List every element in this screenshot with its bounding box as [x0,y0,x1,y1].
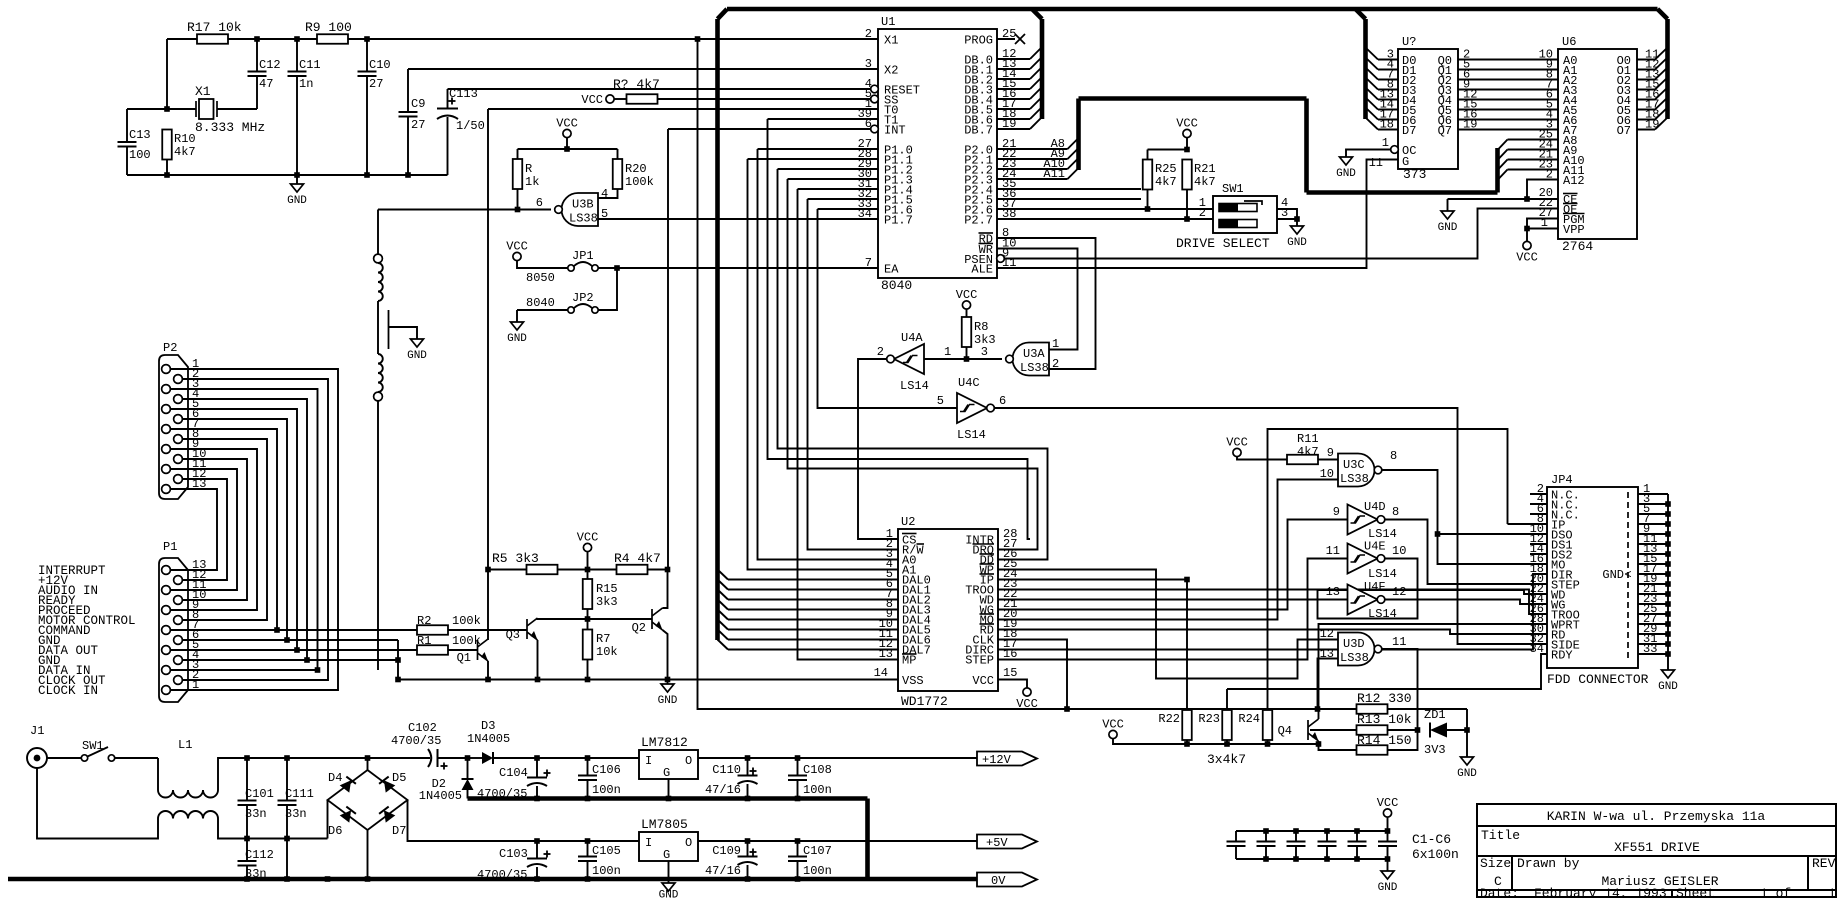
ground shield [411,339,424,347]
wire C6 bottom [1387,846,1389,859]
wire [1227,654,1547,689]
capacitor C2 [1257,842,1276,847]
svg-text:1n: 1n [299,77,313,91]
junction [585,567,591,573]
svg-text:U4E: U4E [1364,540,1386,554]
wire riser [397,640,399,680]
wire JP2 to EA node [598,268,617,310]
junction [1184,741,1190,747]
svg-text:GND: GND [659,890,679,898]
svg-text:X2: X2 [884,64,898,78]
wire P2.11 to P1.11 [170,469,237,590]
wire [378,209,551,211]
wire [698,39,1068,709]
svg-text:VCC: VCC [506,240,528,254]
wire [998,680,1027,689]
svg-text:Q3: Q3 [506,628,520,642]
svg-text:4: 4 [601,187,608,201]
svg-text:JP4: JP4 [1551,473,1573,487]
capacitor C101 [238,801,257,806]
resistor R13 [1357,725,1388,735]
wire to crystal [167,108,196,110]
resistor R10 [162,130,172,160]
wire C13 top [126,109,128,142]
bus O vertical at U6 [1665,19,1670,119]
svg-text:GND: GND [1658,681,1678,693]
wire [170,629,418,631]
svg-text:LS14: LS14 [900,379,929,393]
wire D2 [1378,79,1398,81]
wire [998,640,1067,710]
wire [1382,649,1418,730]
junction [325,876,331,882]
wire LM7805 ground [668,861,670,879]
wire DAL7 [728,649,898,651]
wire [788,179,1038,550]
svg-text:GND: GND [507,333,527,345]
wire [1318,559,1548,619]
bus A vertical mid [1304,99,1309,193]
svg-text:VCC: VCC [1102,718,1124,732]
wire C5 top [1356,831,1358,842]
junction [1316,741,1322,747]
bus stub DAL7 [718,640,729,650]
bus stub DB.7 [1030,117,1042,129]
svg-text:GND: GND [1457,768,1477,780]
svg-text:C103: C103 [499,847,528,861]
junction [405,172,411,178]
svg-text:VCC: VCC [556,117,578,131]
inverter U4D LS14 [1348,505,1378,535]
wire gnd stub [1387,859,1389,871]
svg-text:R20: R20 [625,162,647,176]
wire pin 13 [1638,553,1668,555]
wire O0 [1637,59,1655,61]
wire P2.5 to P1.5 [170,409,297,650]
wire C2 bottom [1265,846,1267,859]
junction [745,876,751,882]
bus wire [468,796,868,801]
wire C13 bottom [126,147,128,176]
wire R24 bottom [1267,740,1269,744]
svg-text:11: 11 [1392,635,1406,649]
wire DAL1 [728,589,898,591]
junction [695,36,701,42]
svg-text:Sheet: Sheet [1676,886,1715,898]
bus ground drop [865,799,870,880]
wire C1-C6 bottom rail [1236,858,1388,860]
junction [1464,727,1470,733]
wire [1458,119,1558,121]
bus stub A10 [1068,158,1079,169]
wire JP2 gnd stub [516,310,518,322]
capacitor C112 [238,861,257,866]
bus stub DB.0 [1030,47,1042,59]
resistor R4 [617,565,648,575]
junction [1665,521,1671,527]
svg-text:R11: R11 [1297,432,1319,446]
wire D3 [1378,89,1398,91]
connector P1 [159,558,188,702]
wire C10 bottom [366,76,368,175]
svg-text:L1: L1 [178,738,192,752]
svg-text:100k: 100k [452,634,481,648]
bus stub [1498,140,1508,151]
VCC for C1-C6 [1383,809,1391,817]
ground SW1 [1291,226,1304,234]
wire [377,210,379,255]
wire between coils [377,301,379,354]
junction [1184,577,1190,583]
wire D4 [1378,99,1398,101]
bus A horizontal top [1079,96,1307,101]
junction [666,796,672,802]
junction [795,876,801,882]
svg-text:RDY: RDY [1551,649,1573,663]
svg-text:U2: U2 [901,515,915,529]
capacitor C13 [118,142,137,147]
wire pin 29 [1638,633,1668,635]
svg-text:Drawn by: Drawn by [1517,856,1580,871]
junction [1665,561,1671,567]
capacitor C5 [1348,842,1367,847]
op-amp U1 8040 microcontroller box [878,29,997,278]
svg-text:R8: R8 [974,320,988,334]
gate U3A LS38 [1013,343,1049,376]
wire C6 top [1387,831,1389,842]
overline RD [979,232,994,234]
wire P2.10 to P1.10 [182,459,247,600]
bus bevel left [718,9,728,19]
wire [1319,624,1548,719]
wire VCC to JP1 [517,260,568,268]
wire [788,178,879,180]
wire C110 top [747,758,749,776]
wire [1527,180,1558,200]
wire DB.7 [997,128,1030,130]
wire P2.0 A8 [997,148,1068,150]
capacitor C107 [788,857,807,862]
wire P2.6 to P1.6 [182,419,287,640]
svg-text:8: 8 [1392,505,1399,519]
svg-text:D4: D4 [328,771,342,785]
svg-text:1k: 1k [525,175,539,189]
wire R 1k top [517,149,519,159]
wire crystal to C12 [217,108,257,110]
svg-text:C107: C107 [803,844,832,858]
wire pin 7 [1638,523,1668,525]
svg-text:G: G [663,766,670,780]
wire [247,757,430,759]
svg-text:R2: R2 [417,614,431,628]
wire C106 bottom [587,780,589,799]
wire R12 to ZD1 node [1387,708,1467,710]
wire C103 top [536,841,538,859]
bus stub [1498,160,1508,171]
wire D2 bottom [467,790,469,799]
junction [254,36,260,42]
wire [617,267,878,269]
svg-text:ZD1: ZD1 [1424,708,1446,722]
wire C106 top [587,758,589,776]
wire ZD1 right [1447,729,1467,731]
regulator LM7812 [639,750,698,779]
svg-text:LS38: LS38 [1340,472,1369,486]
wire C107 bottom [797,861,799,879]
junction [1293,856,1299,862]
wire [448,629,528,631]
junction [585,796,591,802]
wire C1-C6 top rail [1236,830,1388,832]
bus stub D4 [1366,88,1379,100]
junction [745,796,751,802]
junction [1354,856,1360,862]
bus stub DAL2 [718,590,729,600]
svg-text:R9 100: R9 100 [305,20,352,35]
VCC for R/R20 [563,129,571,137]
wire C11 top [296,39,298,72]
svg-text:G: G [1402,155,1409,169]
wire CE gnd stub [1447,199,1449,211]
bus stub O1 [1655,58,1668,70]
wire RESET to U1 [448,88,872,90]
svg-text:VCC: VCC [956,288,978,302]
wire C1 top [1235,831,1237,842]
wire [1458,79,1558,81]
resistor R8 [962,317,972,347]
svg-text:MP: MP [902,654,916,668]
wire R20 to U3B pin4 [598,189,618,198]
svg-text:U1: U1 [881,15,895,29]
svg-text:C106: C106 [592,763,621,777]
bus stub O0 [1655,48,1668,60]
wire [1458,59,1558,61]
svg-text:GND: GND [1378,882,1398,894]
svg-text:6: 6 [536,196,543,210]
svg-text:R13 10k: R13 10k [1357,712,1412,727]
svg-text:10: 10 [1392,544,1406,558]
svg-text:JP2: JP2 [572,291,594,305]
svg-text:R17 10k: R17 10k [187,20,242,35]
wire C111 top [286,758,288,801]
svg-text:EA: EA [884,263,899,277]
wire C109 bottom [747,865,749,879]
junction [1064,706,1070,712]
junction [1315,706,1321,712]
resistor R12 [1357,704,1388,714]
bus stub D5 [1366,98,1379,110]
svg-text:100k: 100k [625,175,654,189]
svg-text:INT: INT [884,124,906,138]
wire [998,480,1338,620]
svg-text:U3A: U3A [1023,347,1045,361]
bus A horizontal bottom [1307,190,1498,195]
capacitor C110 [738,776,758,785]
wire PSEN to OE [1004,209,1558,259]
wire C112 top [246,839,248,862]
svg-text:4k7: 4k7 [1155,175,1177,189]
wire C113 top riser [447,89,449,109]
junction [795,838,801,844]
wire SW1 pin3 [1277,218,1297,220]
wire C12 bottom riser [256,76,258,109]
wire [997,238,1096,369]
bus stub O5 [1655,98,1668,110]
pin bubbles RESET SS INT [871,85,879,93]
wire [808,199,899,550]
wire JP1 to EA node [598,267,617,269]
svg-text:U6: U6 [1562,35,1576,49]
wire [182,639,398,641]
svg-text:R23: R23 [1198,712,1220,726]
junction [1665,531,1671,537]
svg-text:VSS: VSS [902,674,924,688]
wire [537,640,539,680]
junction [485,677,491,683]
wire pin 9 [1638,533,1668,535]
capacitor C111 [278,801,297,806]
wire stub [1530,513,1547,515]
svg-text:6: 6 [999,394,1006,408]
wire R 1k bottom [517,189,519,209]
VCC for R22-R24 [1109,730,1117,738]
resistor R15 [583,579,593,609]
svg-text:R4 4k7: R4 4k7 [614,551,661,566]
svg-text:8040: 8040 [526,296,555,310]
wire [758,148,879,150]
junction [294,36,300,42]
svg-text:100: 100 [129,148,151,162]
bus stub O7 [1655,118,1668,130]
wire pin 17 [1638,573,1668,575]
svg-text:27: 27 [369,77,383,91]
junction [244,876,250,882]
junction [1524,226,1530,232]
capacitor C4 [1318,842,1337,847]
wire X1 rail to U1 [348,38,878,40]
wire C110 bottom [747,784,749,799]
wire [1458,99,1558,101]
svg-text:LS14: LS14 [1368,567,1397,581]
wire C12 top [256,39,258,72]
wire stub [1530,553,1547,555]
VCC for R25/R21 [1183,129,1191,137]
wire DB.3 [997,88,1030,90]
svg-text:1/50: 1/50 [456,119,485,133]
svg-text:P2: P2 [163,341,177,355]
capacitor C1 [1227,842,1246,847]
svg-text:47/16: 47/16 [705,783,741,797]
connector P2 [159,355,188,499]
svg-text:12: 12 [1320,627,1334,641]
svg-text:13: 13 [1326,585,1340,599]
resistor R14 [1357,745,1388,755]
svg-text:100n: 100n [803,864,832,878]
svg-text:LM7812: LM7812 [641,735,688,750]
wire DAL6 [728,639,898,641]
junction [1665,511,1671,517]
junction [515,207,521,213]
diode D3 [482,752,493,764]
bus stub DAL1 [718,580,729,590]
svg-text:R25: R25 [1155,162,1177,176]
bus A vertical right [1495,148,1500,193]
junction [534,838,540,844]
junction [665,677,671,683]
svg-text:C12: C12 [259,58,281,72]
bus DB vertical at U1 [1040,19,1045,119]
resistor R17 [197,34,228,44]
wire P2.1 to P1.1 [170,369,338,690]
junction [365,755,371,761]
svg-text:Title: Title [1481,828,1520,843]
wire [157,758,159,790]
wire [748,159,899,570]
bus stub D3 [1366,78,1379,90]
capacitor C106 [578,776,597,781]
wire INT to U1 [668,128,871,130]
wire C107 top [797,841,799,857]
wire [858,359,898,539]
wire VPP to VCC [1526,229,1528,243]
wire to R12 [1318,708,1358,710]
svg-text:100n: 100n [592,783,621,797]
wire [998,570,1338,679]
wire SW1 pin4 down [1277,209,1297,219]
svg-text:February 14, 1993: February 14, 1993 [1534,886,1667,898]
wire D6 [1378,119,1398,121]
wire P2.9 to P1.9 [170,449,257,610]
svg-text:D6: D6 [328,824,342,838]
wire C9 top riser [407,69,409,112]
svg-text:X1: X1 [195,84,211,99]
wire [997,38,1015,40]
svg-text:33: 33 [1643,642,1657,656]
wire [1458,69,1558,71]
svg-text:Q7: Q7 [1438,124,1452,138]
svg-text:DRIVE SELECT: DRIVE SELECT [1176,236,1270,251]
wire C5 bottom [1356,846,1358,859]
wire C105 bottom [587,861,589,879]
bus A vertical left [1076,99,1081,171]
wire stub [1530,493,1547,495]
wire [598,218,878,220]
wire P2.2 to P1.2 [182,379,328,680]
svg-text:R? 4k7: R? 4k7 [613,77,660,92]
transistor Q4 [1308,719,1319,741]
wire PGM to VPP [1527,219,1558,229]
svg-text:2: 2 [865,27,872,41]
svg-text:Size: Size [1480,856,1511,871]
wire pin 23 [1638,603,1668,605]
svg-text:14: 14 [874,666,888,680]
ground LM7805 [662,883,675,891]
wire [1385,600,1548,605]
junction [535,677,541,683]
svg-text:C110: C110 [712,763,741,777]
wire pin 11 [1638,543,1668,545]
junction [665,567,671,573]
wire [1458,129,1558,131]
overline WR [979,243,994,245]
wire C111 bottom [286,805,288,879]
wire DAL5 [728,629,898,631]
wire gnd stub [668,879,670,883]
svg-text:X1: X1 [884,34,898,48]
wire [748,158,879,160]
bus bevel U1 [1032,9,1042,19]
junction [585,616,591,622]
